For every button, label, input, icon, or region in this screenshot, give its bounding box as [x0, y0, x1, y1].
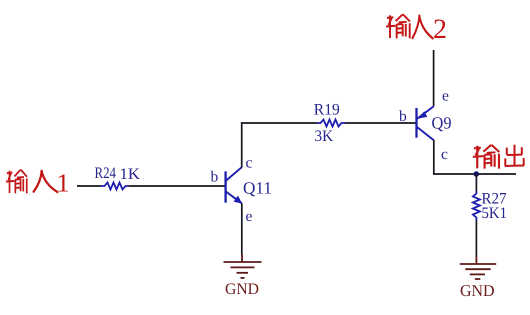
net label 输入1 [6, 168, 70, 197]
svg-text:e: e [246, 208, 253, 225]
svg-text:R19: R19 [314, 102, 340, 119]
svg-text:1K: 1K [120, 166, 141, 183]
wire R27 to ground [475, 221, 477, 257]
wire input2 to Q9 emitter [433, 50, 435, 106]
svg-text:c: c [441, 146, 448, 163]
svg-text:GND: GND [225, 281, 259, 298]
resistor R19 [317, 120, 345, 127]
svg-text:R24: R24 [95, 165, 117, 182]
Q9 emitter arrow [417, 111, 427, 119]
resistor R24 [101, 183, 129, 190]
svg-text:2: 2 [433, 14, 447, 45]
svg-text:GND: GND [460, 281, 495, 300]
svg-text:Q11: Q11 [243, 179, 272, 198]
svg-text:Q9: Q9 [432, 114, 452, 133]
svg-text:b: b [211, 169, 219, 186]
transistor Q11 [226, 167, 242, 203]
net label 输出 [473, 145, 524, 169]
wire Q9 collector down [434, 140, 516, 174]
net label 输入2 [386, 14, 447, 45]
svg-text:5K1: 5K1 [482, 205, 508, 222]
svg-text:3K: 3K [315, 128, 334, 145]
transistor Q9 [417, 106, 434, 140]
svg-text:b: b [399, 108, 407, 125]
Q11 emitter arrow [234, 196, 243, 204]
node output junction [474, 171, 480, 177]
wire R24 to Q11 base [129, 185, 225, 187]
wire Q11 emitter down [241, 203, 243, 254]
wire input1 lead [77, 185, 101, 187]
wire Q11 collector up [242, 123, 317, 168]
resistor R27 [473, 191, 480, 221]
svg-text:1: 1 [57, 168, 70, 197]
wire junction to R27 [475, 174, 477, 191]
ground GND right [460, 256, 496, 279]
wire R19 to Q9 base [345, 122, 416, 124]
svg-text:e: e [442, 88, 449, 105]
svg-text:c: c [246, 155, 253, 172]
ground GND left [224, 254, 262, 278]
